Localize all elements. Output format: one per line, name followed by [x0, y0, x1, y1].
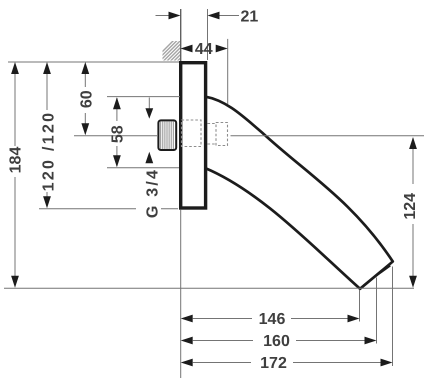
- axis line left: [74, 135, 157, 137]
- wall hatch: [148, 36, 206, 66]
- spout outlet inner line: [363, 266, 390, 285]
- svg-text:120 /120: 120 /120: [41, 111, 58, 192]
- wall extension below plate: [180, 210, 182, 378]
- axis line right / 124 top extension: [231, 135, 425, 137]
- tip extension x359.5: [359, 290, 361, 322]
- svg-text:172: 172: [260, 355, 287, 372]
- hidden bore dashed rect in plate: [182, 120, 202, 147]
- baseline y286: [4, 287, 414, 289]
- wall line above plate: [180, 9, 182, 61]
- dim 120/120: [41, 62, 58, 208]
- top reference line y62: [8, 61, 179, 63]
- svg-text:58: 58: [110, 125, 127, 143]
- dim 160: [181, 333, 377, 350]
- 58 bottom extension y167.8: [107, 167, 179, 169]
- wall plate: [181, 63, 206, 208]
- dim 58: [110, 97, 127, 167]
- hidden connector dashed rect in spout base: [216, 123, 228, 146]
- svg-text:21: 21: [241, 9, 259, 26]
- svg-text:G 3/4: G 3/4: [145, 168, 162, 218]
- dim 44: [181, 41, 228, 58]
- spout body: [205, 97, 393, 289]
- dim 172: [181, 355, 393, 372]
- plate front extension above: [207, 9, 209, 60]
- dim 21: [156, 9, 259, 26]
- svg-text:146: 146: [259, 311, 286, 328]
- 44 right extension: [227, 39, 229, 104]
- svg-text:160: 160: [263, 333, 290, 350]
- dim 184: [7, 62, 24, 288]
- svg-text:124: 124: [402, 193, 419, 220]
- union nut G3/4: [158, 120, 176, 150]
- hidden connector dashes: [208, 124, 217, 145]
- dim 124: [402, 137, 419, 288]
- nut hatch: [161, 121, 174, 149]
- 120 bottom extension y208.8 (gap at G3/4 text): [39, 208, 136, 210]
- dim 146: [181, 311, 360, 328]
- spout top extension y96.6: [107, 96, 180, 98]
- dim 60: [79, 62, 96, 135]
- tip extension x376.5: [376, 278, 378, 344]
- svg-text:184: 184: [7, 147, 24, 174]
- dim G 3/4: [145, 98, 162, 219]
- svg-text:44: 44: [195, 41, 213, 58]
- tip extension x392.5: [392, 267, 394, 367]
- svg-text:60: 60: [79, 90, 96, 108]
